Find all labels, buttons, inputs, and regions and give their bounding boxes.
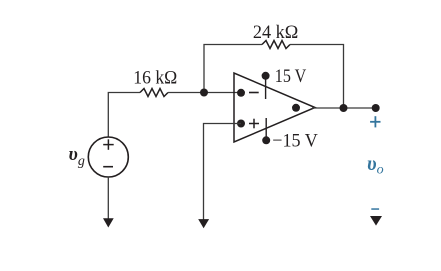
- svg-text:16 kΩ: 16 kΩ: [133, 68, 177, 89]
- wire: source top to 16k resistor: [108, 93, 140, 138]
- ground arrow (source): [103, 218, 114, 227]
- resistor 24 kOhm: [253, 22, 298, 49]
- wire: feedback left vertical and top run: [204, 45, 262, 93]
- label - (output polarity): [371, 208, 379, 210]
- label + (output polarity): [370, 116, 380, 127]
- pin: -15 V supply: [262, 118, 318, 152]
- ground arrow (noninverting input): [198, 219, 209, 228]
- node: output terminal: [372, 104, 380, 112]
- op-amp U1: [234, 73, 315, 142]
- svg-text:24 kΩ: 24 kΩ: [253, 22, 298, 43]
- wire: noninverting input to ground: [204, 124, 242, 221]
- resistor 16 kOhm: [133, 68, 177, 97]
- wire: feedback top run to output node: [290, 45, 344, 109]
- wire: source bottom to ground: [107, 177, 109, 219]
- source vg: [69, 137, 129, 177]
- pin: +15 V supply: [262, 66, 307, 99]
- wire: op-amp output to terminal: [312, 107, 376, 109]
- svg-text:−15 V: −15 V: [272, 131, 318, 152]
- node: inverting input junction: [200, 89, 208, 97]
- wire: 16k resistor to inverting input: [168, 92, 241, 94]
- svg-text:15 V: 15 V: [275, 66, 307, 87]
- output ground terminal: [370, 216, 382, 226]
- node: output junction: [340, 104, 348, 112]
